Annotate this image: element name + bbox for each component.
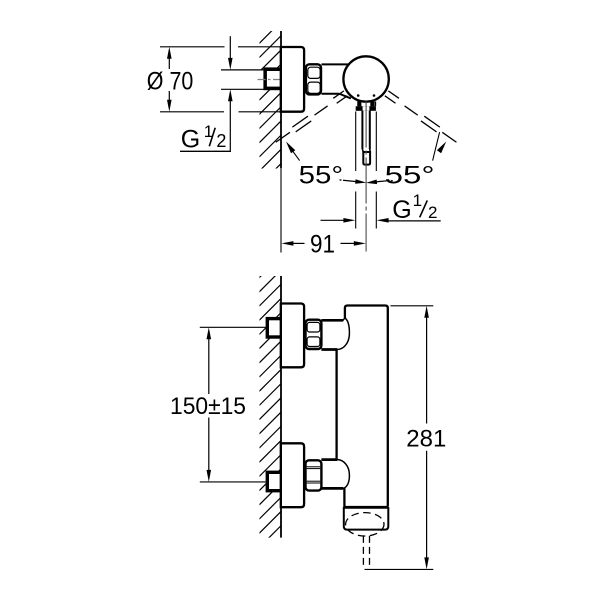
svg-text:150±15: 150±15 <box>170 393 246 420</box>
svg-text:55°: 55° <box>385 162 435 190</box>
svg-text:Ø 70: Ø 70 <box>147 68 194 96</box>
svg-text:2: 2 <box>428 203 437 222</box>
svg-text:91: 91 <box>310 230 335 258</box>
svg-text:G: G <box>181 126 200 154</box>
svg-text:55°: 55° <box>299 162 344 190</box>
svg-text:2: 2 <box>216 131 226 151</box>
svg-text:1: 1 <box>413 191 422 210</box>
svg-text:G: G <box>392 196 411 224</box>
svg-text:281: 281 <box>406 426 446 453</box>
